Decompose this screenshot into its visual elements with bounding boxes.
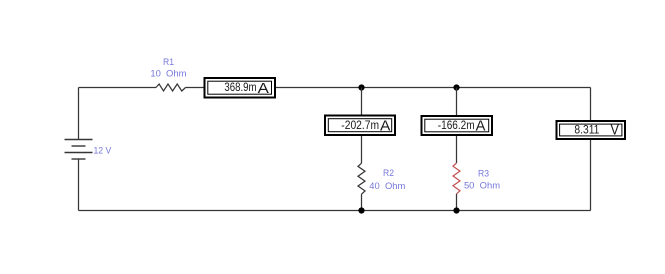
svg-text:40 Ohm: 40 Ohm [369, 181, 405, 192]
label R1 [163, 57, 174, 68]
wire: right vertical (through voltmeter) [590, 88, 592, 211]
wire: R2 branch vertical upper (top node to R2) [361, 88, 363, 164]
label R3 [478, 168, 489, 179]
voltmeter U4 (reads 8.311 V, across right branch) [557, 121, 626, 139]
svg-text:R2: R2 [383, 168, 394, 179]
svg-text:A: A [476, 118, 486, 135]
svg-text:R3: R3 [478, 168, 489, 179]
svg-text:-202.7m: -202.7m [341, 118, 379, 132]
junction: node bottom-R3 branch [453, 207, 459, 213]
svg-text:A: A [258, 80, 269, 97]
wire: top horizontal (node 1) [79, 87, 591, 89]
svg-text:10 Ohm: 10 Ohm [150, 69, 186, 80]
junction: node bottom-R2 branch [358, 207, 364, 213]
svg-text:V: V [611, 122, 619, 139]
svg-text:A: A [380, 118, 390, 135]
wire: bottom horizontal (node 0) [79, 210, 591, 212]
ammeter U1 (reads 368.9m A, in series on top wire) [205, 78, 276, 98]
label R3 value "50 Ohm" [464, 180, 500, 191]
wire: left vertical upper segment (battery + to top wire) [78, 88, 80, 140]
label R2 [383, 168, 394, 179]
battery V1 (12 V source) [65, 140, 93, 160]
resistor R1 (10 Ohm, horizontal zigzag) [156, 84, 186, 91]
svg-text:368.9m: 368.9m [224, 80, 256, 94]
wire: R2 branch vertical lower (R2 to bottom node) [361, 194, 363, 210]
label R2 value "40 Ohm" [369, 181, 405, 192]
svg-text:50 Ohm: 50 Ohm [464, 180, 500, 191]
svg-text:-166.2m: -166.2m [438, 118, 475, 132]
svg-text:8.311: 8.311 [574, 123, 599, 137]
junction: node top-R2 branch [358, 84, 364, 90]
wire: R3 branch vertical upper (top node to R3) [456, 88, 458, 164]
ammeter U3 (reads -166.2m A, in series with R3) [422, 116, 493, 135]
resistor R3 (50 Ohm, vertical zigzag, red) [453, 163, 460, 194]
junction: node top-R3 branch [453, 84, 459, 90]
wire: R3 branch vertical lower (R3 to bottom node) [456, 194, 458, 211]
ammeter U2 (reads -202.7m A, in series with R2) [325, 116, 395, 136]
svg-text:12 V: 12 V [94, 146, 112, 157]
resistor R2 (40 Ohm, vertical zigzag) [358, 163, 365, 194]
label R1 value "10 Ohm" [150, 69, 186, 80]
wire: left vertical lower segment (battery - to bottom wire) [78, 159, 80, 211]
svg-text:R1: R1 [163, 57, 174, 68]
label V1 value "12 V" [94, 146, 112, 157]
